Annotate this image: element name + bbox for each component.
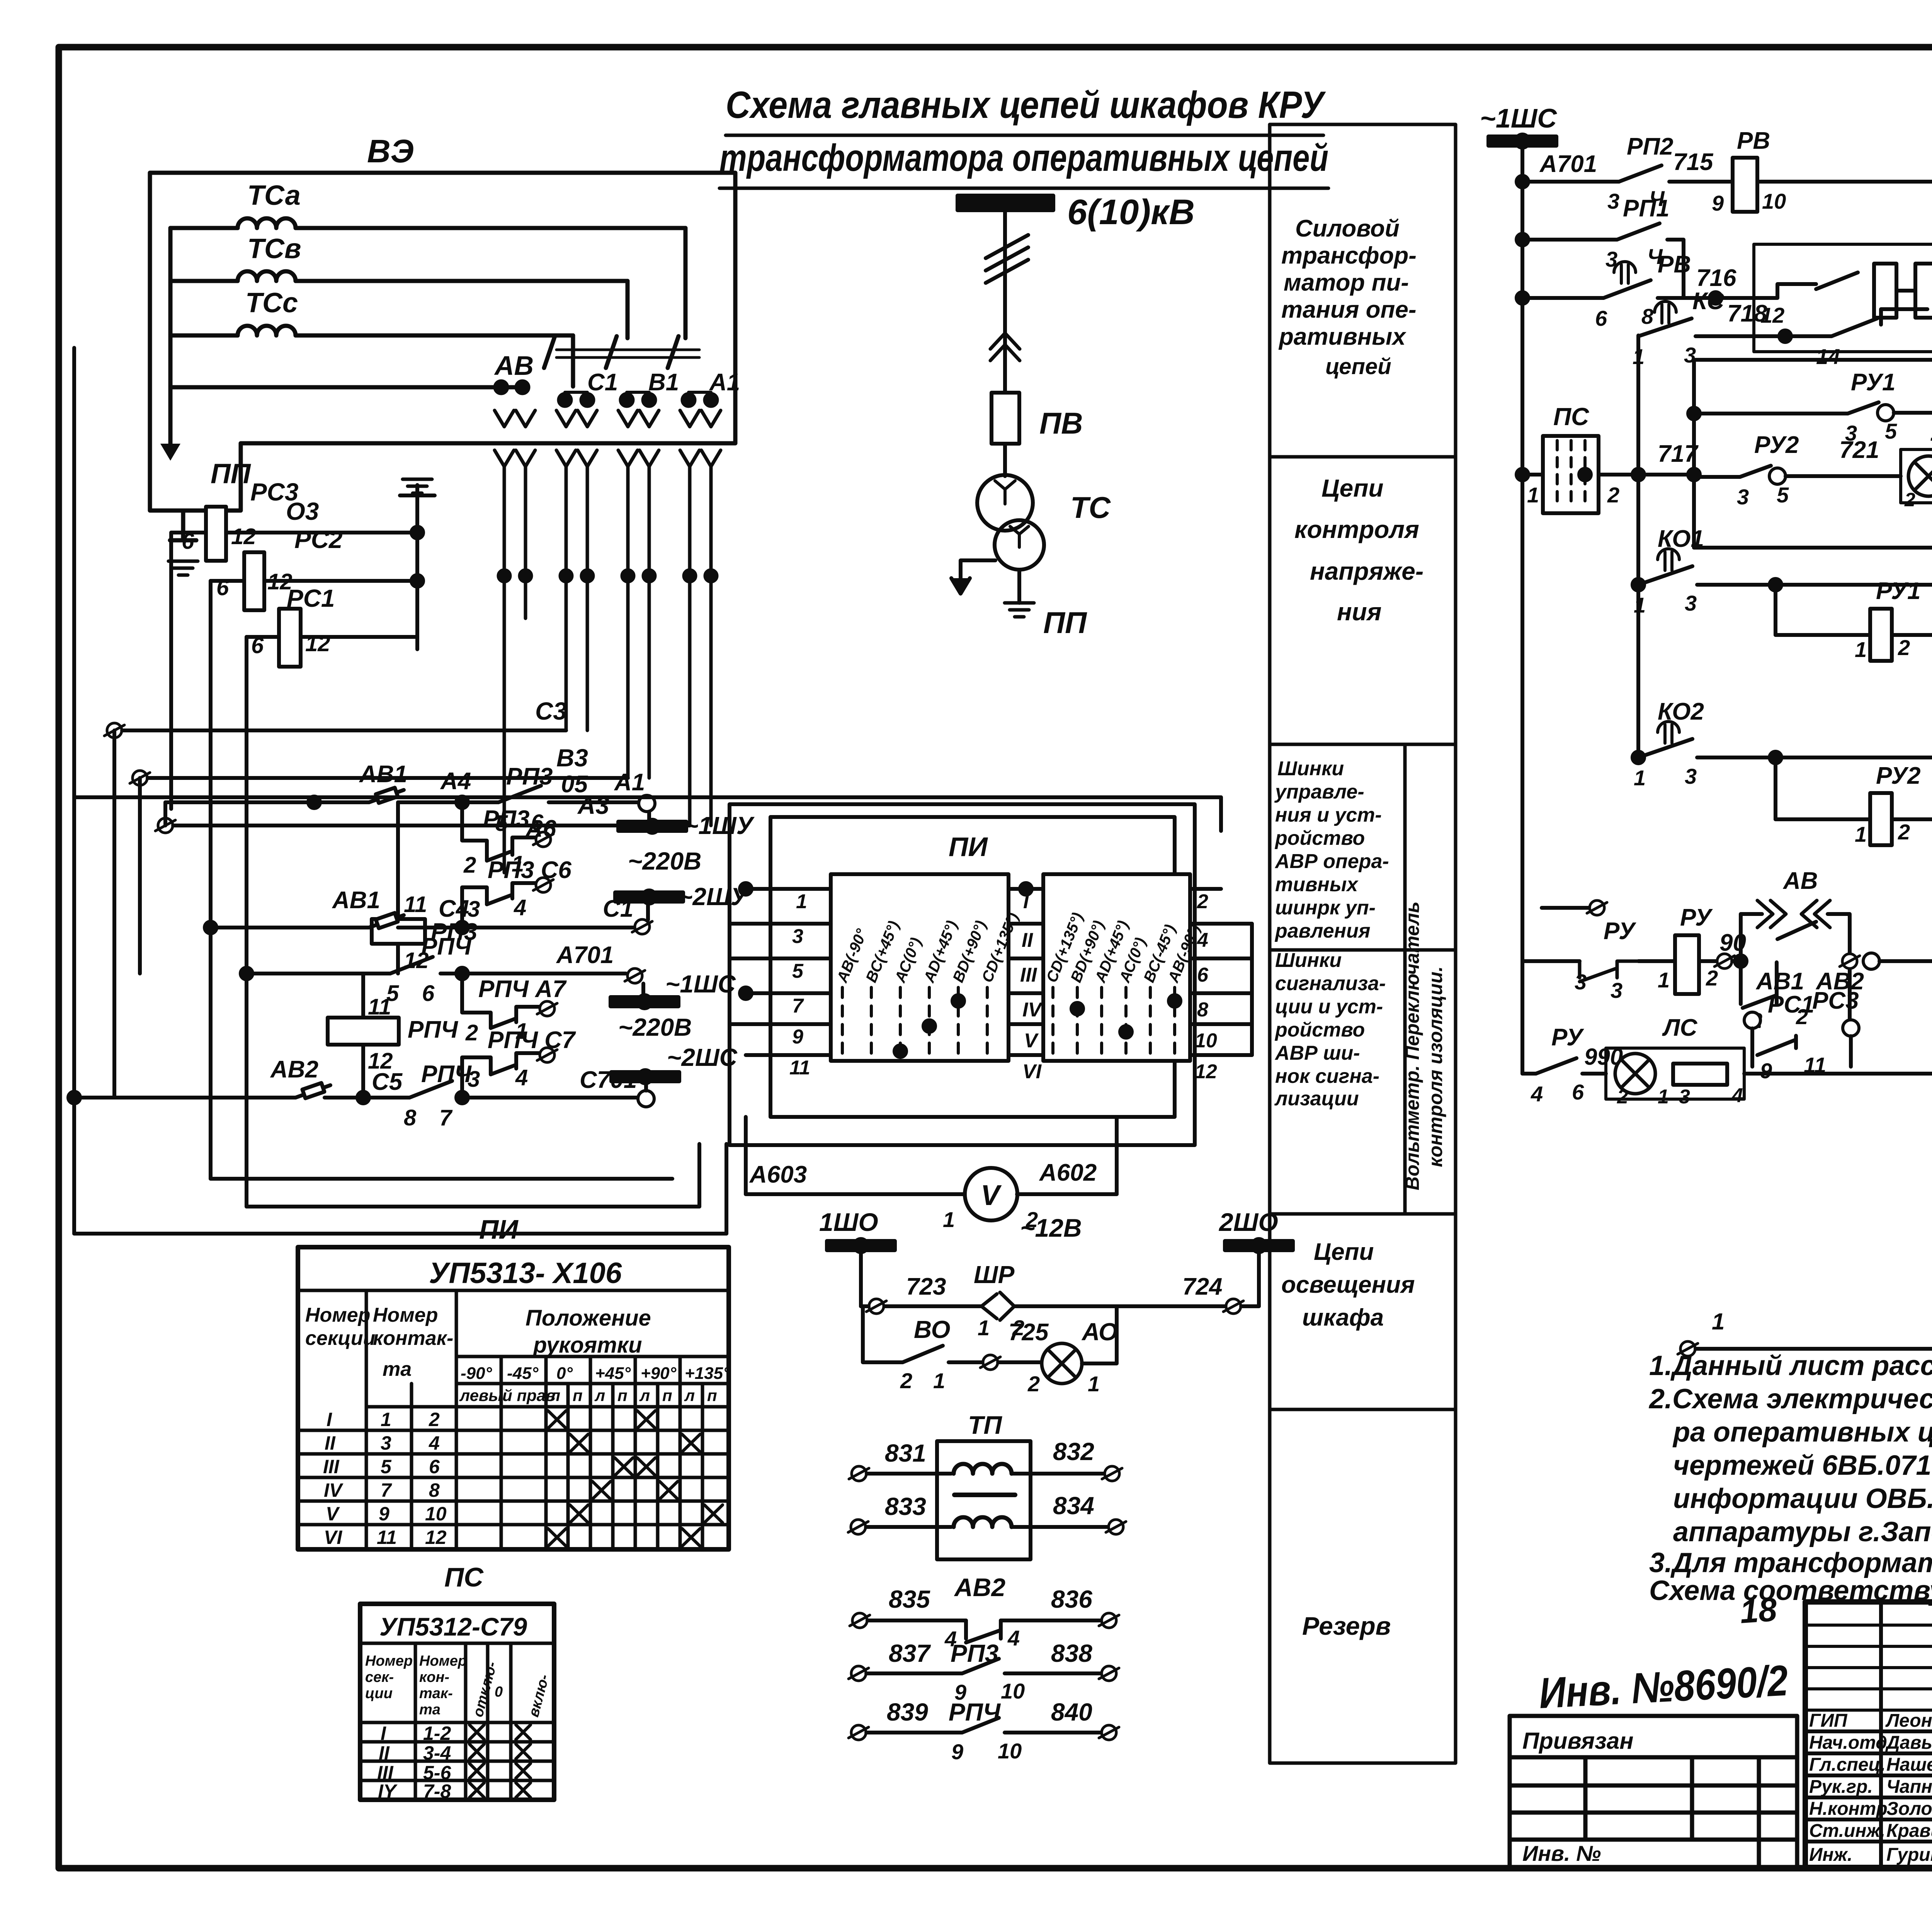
- svg-text:839: 839: [887, 1698, 928, 1726]
- svg-text:725: 725: [1009, 1319, 1049, 1346]
- svg-text:Номер: Номер: [419, 1653, 467, 1669]
- svg-text:ПС: ПС: [1553, 403, 1589, 431]
- svg-text:835: 835: [889, 1585, 930, 1613]
- svg-text:11: 11: [377, 1527, 397, 1548]
- svg-text:равления: равления: [1274, 920, 1370, 942]
- svg-text:3: 3: [792, 925, 803, 948]
- svg-text:А602: А602: [1039, 1159, 1097, 1186]
- svg-text:838: 838: [1051, 1639, 1092, 1667]
- svg-text:8: 8: [429, 1479, 440, 1501]
- svg-text:цепей: цепей: [1325, 354, 1391, 379]
- svg-text:Гурина: Гурина: [1886, 1845, 1932, 1865]
- svg-text:4: 4: [1531, 1082, 1543, 1106]
- svg-text:Гл.спец.: Гл.спец.: [1809, 1755, 1886, 1775]
- svg-text:III: III: [1020, 964, 1037, 986]
- svg-text:2: 2: [1197, 890, 1208, 913]
- svg-text:3: 3: [1737, 485, 1749, 509]
- svg-text:РУ: РУ: [1680, 904, 1713, 931]
- svg-text:0°: 0°: [556, 1364, 573, 1383]
- svg-text:2: 2: [463, 853, 476, 878]
- svg-text:секции: секции: [305, 1327, 375, 1350]
- svg-text:6: 6: [1572, 1080, 1584, 1104]
- svg-text:II: II: [325, 1432, 336, 1454]
- svg-text:РВ: РВ: [1737, 128, 1770, 154]
- svg-text:РПЧ: РПЧ: [408, 1016, 458, 1043]
- svg-text:5: 5: [381, 1456, 392, 1477]
- svg-text:РУ: РУ: [1604, 918, 1636, 945]
- svg-text:Инв. №: Инв. №: [1522, 1841, 1601, 1865]
- svg-text:так-: так-: [419, 1685, 453, 1702]
- svg-text:А4: А4: [440, 768, 471, 795]
- svg-text:2: 2: [1706, 966, 1718, 990]
- svg-text:840: 840: [1051, 1698, 1092, 1726]
- svg-text:-45°: -45°: [507, 1364, 539, 1383]
- svg-text:Давыдов: Давыдов: [1885, 1733, 1932, 1753]
- svg-text:РС2: РС2: [294, 526, 343, 553]
- svg-text:3: 3: [1611, 978, 1622, 1003]
- svg-text:Силовой: Силовой: [1295, 215, 1400, 242]
- svg-text:тивных: тивных: [1275, 873, 1359, 896]
- svg-text:10: 10: [998, 1739, 1022, 1763]
- svg-text:шинрк уп-: шинрк уп-: [1275, 897, 1376, 919]
- svg-text:10: 10: [1195, 1030, 1217, 1052]
- svg-text:трансфор-: трансфор-: [1281, 242, 1417, 269]
- svg-text:л: л: [549, 1386, 560, 1404]
- svg-text:АВР опера-: АВР опера-: [1274, 850, 1389, 873]
- svg-text:IY: IY: [378, 1780, 398, 1802]
- svg-text:л: л: [639, 1386, 650, 1404]
- svg-text:9: 9: [1712, 191, 1724, 215]
- svg-text:п: п: [707, 1386, 717, 1404]
- svg-text:А6: А6: [525, 815, 556, 842]
- svg-text:2: 2: [465, 1020, 478, 1045]
- svg-text:ЛС: ЛС: [1662, 1014, 1698, 1041]
- svg-text:3: 3: [1575, 970, 1587, 994]
- svg-text:3: 3: [381, 1432, 391, 1454]
- svg-text:ВЭ: ВЭ: [367, 133, 414, 169]
- svg-text:2: 2: [1898, 820, 1910, 844]
- svg-text:ПС: ПС: [444, 1562, 484, 1592]
- svg-text:РС3: РС3: [250, 478, 299, 506]
- svg-text:3: 3: [1679, 1086, 1690, 1108]
- svg-text:Кравцова: Кравцова: [1886, 1821, 1932, 1841]
- svg-text:РПЧ С7: РПЧ С7: [488, 1027, 576, 1054]
- svg-text:РС1: РС1: [287, 584, 335, 612]
- svg-text:А701: А701: [1539, 151, 1597, 177]
- svg-text:АО: АО: [1081, 1318, 1118, 1346]
- svg-text:ративных: ративных: [1278, 323, 1406, 350]
- svg-text:Чапны: Чапны: [1886, 1777, 1932, 1797]
- svg-text:12: 12: [305, 631, 330, 656]
- svg-text:Схема главных цепей шкафов КРУ: Схема главных цепей шкафов КРУ: [726, 83, 1326, 126]
- svg-text:Номер: Номер: [365, 1653, 413, 1669]
- svg-text:ПП: ПП: [1043, 606, 1087, 640]
- svg-text:V: V: [981, 1179, 1002, 1211]
- svg-text:ЛС2: ЛС2: [1930, 419, 1932, 446]
- svg-text:1: 1: [1634, 593, 1646, 617]
- svg-text:11: 11: [789, 1057, 810, 1079]
- svg-text:2: 2: [1027, 1372, 1040, 1396]
- svg-text:РУ2: РУ2: [1876, 763, 1920, 789]
- svg-text:18: 18: [1739, 1591, 1778, 1631]
- svg-text:7: 7: [792, 995, 804, 1017]
- svg-text:ПП: ПП: [211, 458, 252, 489]
- svg-text:832: 832: [1053, 1438, 1094, 1465]
- svg-text:РВ: РВ: [1658, 251, 1691, 278]
- svg-text:Ст.инж.: Ст.инж.: [1809, 1821, 1885, 1841]
- svg-text:6: 6: [1595, 306, 1607, 330]
- svg-text:вклю-: вклю-: [526, 1673, 553, 1719]
- svg-text:УП5312-С79: УП5312-С79: [379, 1612, 527, 1641]
- svg-text:ПИ: ПИ: [479, 1214, 519, 1244]
- svg-text:9: 9: [1760, 1059, 1772, 1083]
- svg-text:6(10)кВ: 6(10)кВ: [1067, 192, 1195, 232]
- svg-text:ТСс: ТСс: [245, 288, 298, 318]
- svg-text:10: 10: [425, 1503, 447, 1525]
- svg-text:1: 1: [978, 1316, 990, 1340]
- svg-text:4: 4: [515, 1065, 528, 1090]
- svg-text:1: 1: [381, 1409, 391, 1430]
- svg-text:V: V: [1024, 1030, 1039, 1052]
- svg-text:С5: С5: [372, 1069, 403, 1095]
- svg-text:РУ2: РУ2: [1754, 432, 1799, 458]
- svg-text:управле-: управле-: [1274, 781, 1364, 803]
- svg-text:724: 724: [1182, 1273, 1222, 1300]
- svg-text:РП1: РП1: [1623, 195, 1669, 222]
- svg-text:РП3 С6: РП3 С6: [488, 857, 571, 883]
- svg-text:АВ1: АВ1: [332, 887, 380, 914]
- svg-text:1: 1: [1634, 766, 1646, 790]
- svg-text:1: 1: [943, 1207, 955, 1232]
- svg-text:Привязан: Привязан: [1522, 1728, 1633, 1754]
- svg-text:п: п: [662, 1386, 672, 1404]
- svg-text:сек-: сек-: [365, 1669, 394, 1685]
- svg-text:Нач.отд.: Нач.отд.: [1809, 1733, 1892, 1753]
- svg-text:7: 7: [439, 1105, 453, 1130]
- svg-text:5: 5: [792, 960, 804, 982]
- svg-text:Инв. №8690/2: Инв. №8690/2: [1538, 1656, 1789, 1717]
- svg-text:05: 05: [561, 771, 588, 798]
- svg-text:А1: А1: [709, 369, 740, 396]
- svg-text:+45°: +45°: [595, 1364, 631, 1383]
- svg-text:8: 8: [404, 1105, 417, 1130]
- svg-text:С1: С1: [587, 369, 618, 396]
- svg-text:8: 8: [1641, 304, 1654, 328]
- svg-text:-90°: -90°: [461, 1364, 492, 1383]
- svg-text:Рук.гр.: Рук.гр.: [1809, 1777, 1873, 1797]
- svg-text:723: 723: [906, 1273, 946, 1300]
- svg-text:КО2: КО2: [1658, 698, 1704, 725]
- svg-text:833: 833: [885, 1493, 926, 1520]
- svg-text:831: 831: [885, 1439, 926, 1467]
- svg-text:сигнализа-: сигнализа-: [1275, 972, 1386, 995]
- svg-text:+135°: +135°: [685, 1364, 730, 1383]
- svg-text:3: 3: [1607, 189, 1619, 213]
- svg-text:Шинки: Шинки: [1277, 757, 1344, 780]
- svg-text:11: 11: [404, 892, 427, 917]
- svg-text:РС1: РС1: [1768, 991, 1815, 1018]
- svg-text:3: 3: [1685, 764, 1697, 788]
- svg-text:Нашельский: Нашельский: [1886, 1755, 1932, 1775]
- svg-text:1: 1: [933, 1368, 945, 1393]
- svg-text:2: 2: [1607, 483, 1619, 507]
- svg-text:Цепи: Цепи: [1321, 474, 1383, 502]
- svg-text:12: 12: [1195, 1060, 1217, 1083]
- svg-text:ройство: ройство: [1274, 1019, 1365, 1041]
- svg-text:836: 836: [1051, 1585, 1092, 1613]
- svg-text:л: л: [594, 1386, 605, 1404]
- svg-text:трансформатора оперативных цеп: трансформатора оперативных цепей: [719, 136, 1328, 179]
- svg-text:+90°: +90°: [641, 1364, 677, 1383]
- svg-text:1: 1: [1658, 1086, 1669, 1108]
- svg-text:АВ1: АВ1: [1755, 968, 1804, 995]
- svg-text:2ШО: 2ШО: [1218, 1208, 1278, 1236]
- svg-text:матор пи-: матор пи-: [1284, 269, 1409, 296]
- svg-text:РУ1: РУ1: [1876, 578, 1920, 604]
- svg-text:0: 0: [495, 1684, 503, 1700]
- svg-text:3.Для трансформатора операти: 3.Для трансформатора оперативных цепей №…: [1649, 1547, 1932, 1578]
- svg-text:Вольтметр. Переключатель: Вольтметр. Переключатель: [1401, 902, 1423, 1190]
- svg-text:7: 7: [381, 1479, 392, 1501]
- svg-text:АВ2: АВ2: [954, 1573, 1005, 1602]
- svg-text:напряже-: напряже-: [1310, 557, 1423, 585]
- svg-text:1: 1: [1712, 1309, 1725, 1334]
- svg-text:9: 9: [951, 1739, 963, 1764]
- svg-text:7-8: 7-8: [423, 1780, 451, 1802]
- svg-text:1: 1: [1633, 344, 1645, 369]
- svg-text:Номер: Номер: [373, 1304, 438, 1326]
- svg-text:VI: VI: [1022, 1060, 1042, 1083]
- svg-text:А1: А1: [614, 769, 645, 796]
- svg-text:~1ШС: ~1ШС: [665, 970, 736, 998]
- svg-text:АВ: АВ: [494, 351, 534, 381]
- svg-text:Инж.: Инж.: [1809, 1845, 1852, 1865]
- svg-text:ШР: ШР: [974, 1261, 1015, 1288]
- svg-text:12: 12: [231, 524, 256, 549]
- svg-text:1.Данный лист расстатривать: 1.Данный лист расстатривать с листами ЭС…: [1649, 1350, 1932, 1381]
- svg-text:5: 5: [1885, 419, 1897, 443]
- svg-text:РПЧ: РПЧ: [421, 1061, 472, 1088]
- svg-text:837: 837: [889, 1639, 931, 1667]
- svg-text:~1ШС: ~1ШС: [1480, 103, 1557, 133]
- svg-text:ПВ: ПВ: [1039, 406, 1083, 440]
- svg-text:ВО: ВО: [914, 1316, 950, 1343]
- svg-text:721: 721: [1839, 437, 1879, 463]
- svg-text:2: 2: [1617, 1086, 1628, 1108]
- svg-text:2: 2: [429, 1409, 440, 1430]
- svg-text:Резерв: Резерв: [1302, 1612, 1391, 1640]
- svg-text:VI: VI: [324, 1527, 342, 1548]
- svg-text:4: 4: [1007, 1626, 1020, 1650]
- svg-text:тания опе-: тания опе-: [1281, 296, 1417, 323]
- svg-text:РП3: РП3: [506, 763, 553, 790]
- svg-text:ции: ции: [365, 1685, 393, 1702]
- svg-text:рукоятки: рукоятки: [532, 1333, 642, 1358]
- svg-text:та: та: [419, 1702, 440, 1718]
- svg-text:716: 716: [1696, 265, 1736, 291]
- svg-text:~12В: ~12В: [1020, 1214, 1082, 1242]
- svg-text:левый прав: левый прав: [459, 1386, 556, 1404]
- svg-text:КО1: КО1: [1658, 526, 1704, 552]
- svg-text:ТСа: ТСа: [247, 180, 301, 211]
- svg-text:контак-: контак-: [373, 1327, 453, 1350]
- svg-text:8: 8: [1197, 999, 1208, 1021]
- svg-text:718: 718: [1727, 300, 1767, 327]
- svg-text:ции и уст-: ции и уст-: [1275, 996, 1383, 1018]
- svg-text:УП5313- Х106: УП5313- Х106: [429, 1257, 622, 1290]
- svg-text:4: 4: [429, 1432, 440, 1454]
- svg-text:10: 10: [1001, 1679, 1025, 1703]
- svg-text:ГИП: ГИП: [1809, 1711, 1848, 1731]
- svg-text:~1ШУ: ~1ШУ: [684, 812, 755, 839]
- svg-text:1: 1: [1658, 968, 1670, 992]
- svg-text:Цепи: Цепи: [1314, 1239, 1374, 1265]
- svg-text:ния: ния: [1337, 598, 1381, 626]
- svg-text:717: 717: [1658, 441, 1699, 467]
- svg-text:шкафа: шкафа: [1302, 1304, 1384, 1331]
- svg-text:IV: IV: [324, 1479, 344, 1501]
- svg-text:~220В: ~220В: [618, 1013, 692, 1041]
- svg-text:1: 1: [1855, 822, 1867, 846]
- svg-text:аппаратуры г.Запорожье.: аппаратуры г.Запорожье.: [1673, 1517, 1932, 1547]
- svg-text:1: 1: [1527, 483, 1539, 507]
- svg-text:л: л: [684, 1386, 695, 1404]
- svg-text:АВР ши-: АВР ши-: [1274, 1042, 1360, 1064]
- svg-text:II: II: [1022, 929, 1033, 951]
- svg-text:инфортации ОВБ.131.530.ТИ за: инфортации ОВБ.131.530.ТИ завода высоков…: [1673, 1483, 1932, 1514]
- svg-text:РП3: РП3: [483, 806, 529, 832]
- svg-text:6: 6: [422, 981, 435, 1006]
- svg-text:14: 14: [1816, 344, 1840, 369]
- svg-text:5: 5: [1777, 483, 1789, 507]
- svg-text:п: п: [573, 1386, 583, 1404]
- svg-text:ТП: ТП: [968, 1411, 1002, 1439]
- svg-text:1: 1: [796, 890, 807, 913]
- svg-text:Н.контр: Н.контр: [1809, 1799, 1888, 1819]
- svg-text:9: 9: [792, 1026, 803, 1048]
- svg-text:контроля изоляции.: контроля изоляции.: [1425, 966, 1446, 1167]
- svg-text:2: 2: [900, 1368, 912, 1393]
- svg-text:В1: В1: [648, 369, 679, 396]
- svg-text:Золотарева: Золотарева: [1886, 1799, 1932, 1819]
- svg-text:I: I: [327, 1409, 332, 1430]
- svg-text:ПИ: ПИ: [949, 832, 988, 862]
- svg-text:РУ1: РУ1: [1851, 369, 1895, 396]
- svg-text:10: 10: [1762, 189, 1786, 213]
- svg-text:АВ2: АВ2: [270, 1056, 318, 1083]
- svg-text:1: 1: [1088, 1372, 1100, 1396]
- svg-text:715: 715: [1673, 149, 1714, 175]
- svg-text:ройство: ройство: [1274, 827, 1365, 849]
- svg-text:С4: С4: [439, 895, 469, 922]
- svg-text:Шинки: Шинки: [1275, 949, 1342, 972]
- svg-text:А603: А603: [749, 1161, 807, 1188]
- svg-text:IV: IV: [1022, 999, 1043, 1021]
- svg-text:лизации: лизации: [1274, 1088, 1359, 1110]
- svg-text:2.Схема электрическая принци: 2.Схема электрическая принципиальная тра…: [1648, 1384, 1932, 1414]
- svg-text:АВ: АВ: [1782, 868, 1818, 894]
- svg-text:А701: А701: [556, 942, 614, 968]
- svg-text:4: 4: [1731, 1084, 1743, 1107]
- svg-text:РС3: РС3: [1812, 987, 1859, 1014]
- svg-text:Положение: Положение: [526, 1305, 651, 1331]
- svg-text:освещения: освещения: [1281, 1271, 1415, 1298]
- svg-text:~220В: ~220В: [628, 847, 701, 875]
- svg-text:ния и уст-: ния и уст-: [1275, 804, 1382, 826]
- svg-text:9: 9: [379, 1503, 389, 1525]
- svg-text:В3: В3: [556, 744, 588, 772]
- svg-text:~2ШС: ~2ШС: [667, 1043, 738, 1071]
- svg-text:Номер: Номер: [305, 1304, 370, 1326]
- svg-text:4: 4: [514, 895, 526, 920]
- svg-text:нок сигна-: нок сигна-: [1275, 1065, 1379, 1088]
- svg-text:п: п: [617, 1386, 628, 1404]
- svg-text:ра оперативных цепей №1 вып: ра оперативных цепей №1 выполнена на осн…: [1672, 1417, 1932, 1448]
- svg-text:6: 6: [1197, 964, 1209, 986]
- svg-text:КС: КС: [1692, 288, 1725, 315]
- svg-text:ТСв: ТСв: [247, 233, 301, 264]
- svg-text:V: V: [326, 1503, 340, 1525]
- svg-text:2: 2: [1904, 489, 1915, 511]
- svg-text:чертежей 6ВБ.071.800.ПЭЗ,6ВБ.0: чертежей 6ВБ.071.800.ПЭЗ,6ВБ.071.800.ЭЗ …: [1673, 1450, 1932, 1481]
- svg-text:6: 6: [216, 575, 229, 600]
- svg-text:3: 3: [1685, 591, 1697, 615]
- svg-text:та: та: [383, 1358, 412, 1380]
- svg-text:12: 12: [425, 1527, 447, 1548]
- svg-text:III: III: [323, 1456, 340, 1477]
- svg-text:РПЧ А7: РПЧ А7: [478, 976, 567, 1003]
- svg-text:834: 834: [1053, 1492, 1094, 1520]
- svg-text:РП2: РП2: [1627, 133, 1673, 160]
- svg-text:1: 1: [1855, 637, 1867, 662]
- svg-text:кон-: кон-: [419, 1669, 449, 1685]
- svg-text:ТС: ТС: [1070, 490, 1111, 524]
- svg-text:РУ: РУ: [1551, 1024, 1584, 1051]
- svg-text:2: 2: [1898, 635, 1910, 660]
- svg-text:3: 3: [468, 897, 480, 922]
- svg-text:контроля: контроля: [1294, 516, 1419, 543]
- svg-text:1ШО: 1ШО: [819, 1208, 878, 1236]
- svg-text:АВ1: АВ1: [359, 761, 407, 788]
- svg-text:РПЧ: РПЧ: [421, 933, 472, 960]
- svg-text:С3: С3: [535, 697, 567, 725]
- svg-text:Леонов: Леонов: [1885, 1711, 1932, 1731]
- svg-text:6: 6: [429, 1456, 440, 1477]
- svg-text:4: 4: [1197, 929, 1208, 951]
